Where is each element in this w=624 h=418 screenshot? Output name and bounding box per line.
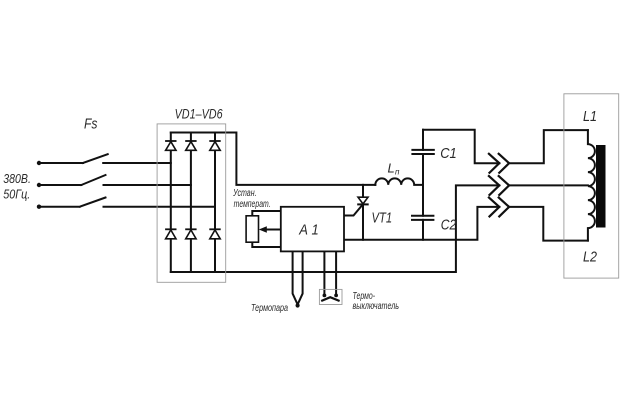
svg-text:А 1: А 1: [298, 221, 318, 238]
svg-text:L1: L1: [583, 109, 597, 125]
svg-text:VT1: VT1: [372, 209, 393, 226]
svg-text:L2: L2: [583, 250, 597, 266]
svg-text:VD1–VD6: VD1–VD6: [175, 106, 223, 122]
svg-text:380В.: 380В.: [3, 171, 31, 186]
svg-text:выключатель: выключатель: [353, 301, 400, 312]
svg-text:Термопара: Термопара: [251, 303, 288, 314]
svg-text:C2: C2: [441, 216, 457, 233]
svg-text:Устан.: Устан.: [232, 188, 256, 199]
svg-text:Fs: Fs: [84, 116, 98, 133]
svg-text:п: п: [395, 168, 400, 177]
svg-text:L: L: [388, 161, 395, 176]
svg-text:50Гц.: 50Гц.: [3, 186, 30, 201]
svg-text:C1: C1: [440, 145, 457, 162]
svg-text:температ.: температ.: [234, 199, 271, 210]
